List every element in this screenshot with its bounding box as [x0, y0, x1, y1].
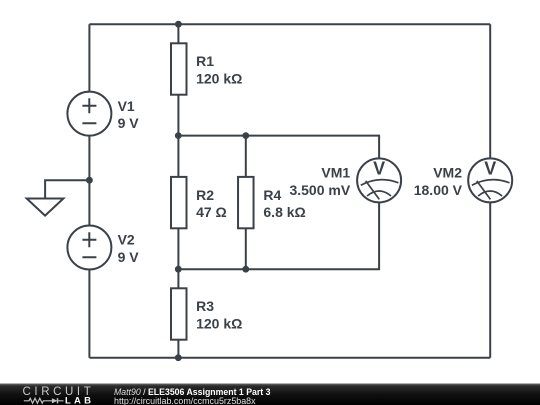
svg-text:9 V: 9 V [118, 249, 140, 265]
svg-text:V: V [484, 158, 496, 178]
svg-text:http://circuitlab.com/ccmcu5rz: http://circuitlab.com/ccmcu5rz5ba8x [114, 396, 256, 405]
svg-text:VM2: VM2 [433, 165, 462, 181]
svg-text:120 kΩ: 120 kΩ [196, 316, 242, 332]
svg-text:R4: R4 [263, 187, 281, 203]
svg-text:120 kΩ: 120 kΩ [196, 71, 242, 87]
svg-text:6.8 kΩ: 6.8 kΩ [263, 204, 305, 220]
svg-text:R1: R1 [196, 53, 214, 69]
svg-text:VM1: VM1 [321, 165, 350, 181]
svg-text:R2: R2 [196, 187, 214, 203]
svg-text:18.00 V: 18.00 V [414, 182, 463, 198]
svg-text:V2: V2 [118, 232, 135, 248]
svg-text:R3: R3 [196, 298, 214, 314]
svg-text:LAB: LAB [65, 395, 94, 405]
svg-text:V1: V1 [118, 98, 135, 114]
svg-text:3.500 mV: 3.500 mV [289, 182, 350, 198]
svg-text:V: V [373, 158, 385, 178]
svg-text:9 V: 9 V [118, 115, 140, 131]
svg-text:47 Ω: 47 Ω [196, 204, 227, 220]
